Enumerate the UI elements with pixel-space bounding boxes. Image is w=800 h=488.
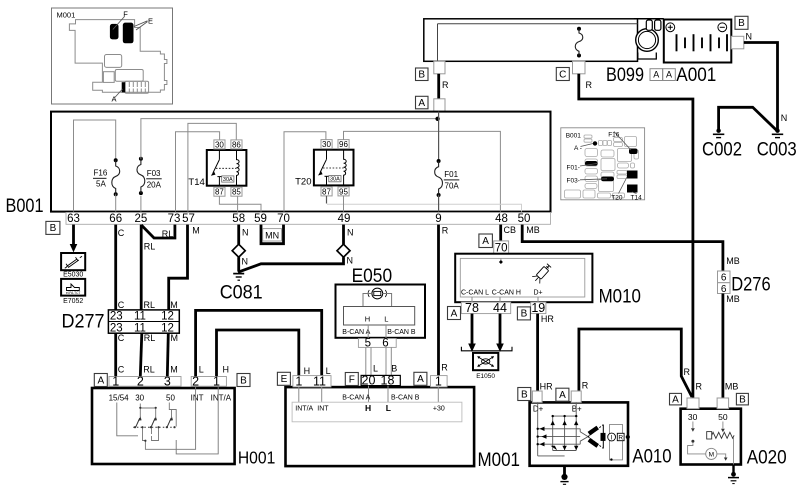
svg-text:6: 6: [721, 284, 727, 295]
svg-text:2: 2: [137, 374, 144, 388]
A020 solenoid coil: [707, 432, 734, 439]
svg-text:5A: 5A: [96, 180, 106, 189]
svg-text:R: R: [696, 382, 703, 392]
svg-text:B: B: [521, 389, 528, 400]
svg-text:C: C: [118, 228, 125, 238]
svg-text:R: R: [684, 367, 691, 377]
svg-text:63: 63: [67, 213, 80, 225]
wire branch C003 to C002: [719, 107, 777, 130]
connector label A (B001 top): [416, 96, 429, 109]
wire T14 pin85 to pin58: [237, 196, 239, 211]
svg-text:C: C: [118, 300, 125, 310]
svg-text:86: 86: [232, 140, 241, 149]
svg-text:RL: RL: [144, 333, 156, 343]
svg-text:MB: MB: [726, 294, 740, 304]
svg-text:C002: C002: [702, 140, 742, 161]
wire fuse F16 to pin66: [115, 194, 117, 211]
wire T14 pin87 to pin59: [219, 196, 261, 211]
ground C002: [702, 129, 742, 161]
svg-text:50: 50: [518, 213, 531, 225]
svg-text:6: 6: [721, 272, 727, 283]
svg-text:T20: T20: [611, 195, 623, 202]
B001 top pin A stub: [434, 99, 445, 112]
svg-text:MB: MB: [725, 382, 739, 392]
svg-text:D276: D276: [731, 274, 771, 296]
wire M pin57 to D277: [169, 225, 188, 310]
wire fuse F03 top to F01 node: [141, 119, 438, 159]
svg-text:C: C: [118, 333, 125, 343]
svg-text:A: A: [482, 236, 489, 247]
svg-text:85: 85: [232, 188, 241, 197]
svg-text:T20: T20: [295, 177, 311, 188]
svg-text:L: L: [386, 403, 391, 413]
svg-text:F: F: [349, 374, 355, 385]
svg-text:1: 1: [112, 374, 119, 388]
svg-text:A: A: [418, 98, 425, 109]
svg-text:A001: A001: [676, 64, 716, 86]
wire pin25 through fuse F03 to junction: [140, 196, 142, 212]
H001 switch mechanism: [117, 386, 218, 454]
svg-text:E5030: E5030: [63, 272, 83, 279]
connector label B (M010): [517, 307, 530, 320]
svg-text:58: 58: [232, 213, 245, 225]
labels L H above H001-B: [199, 365, 229, 375]
svg-text:F03: F03: [147, 169, 161, 178]
wire pin70 to T20 pin30: [284, 132, 326, 212]
connector label A (M010): [448, 307, 461, 320]
svg-text:1: 1: [213, 374, 220, 388]
wire stub T20 pin87: [326, 196, 328, 204]
wire B099-B down to B001-A: [437, 74, 440, 99]
svg-text:INT: INT: [191, 394, 204, 403]
svg-text:C-CAN H: C-CAN H: [492, 290, 521, 297]
A010 D+ stub: [532, 391, 543, 414]
svg-text:25: 25: [135, 213, 148, 225]
svg-text:15/54: 15/54: [109, 394, 130, 403]
wire CB pin48 to M010 pin70: [499, 225, 502, 241]
horn E5030 symbol: [61, 253, 85, 279]
svg-text:A: A: [559, 390, 566, 401]
svg-text:INT: INT: [317, 406, 329, 413]
svg-text:96: 96: [339, 140, 348, 149]
svg-text:H: H: [304, 366, 311, 376]
svg-text:L: L: [373, 363, 378, 373]
A010 stator and regulator: [580, 425, 630, 461]
svg-text:H: H: [365, 314, 370, 323]
svg-text:R: R: [442, 80, 449, 90]
svg-text:3: 3: [164, 374, 171, 388]
wire H H001-B1 to M001-E1: [217, 330, 299, 377]
fuse F03 20A: [137, 157, 162, 195]
wire C pin66 to D277: [114, 225, 117, 310]
wire N pin58 to connector: [237, 225, 240, 245]
wire RL jumper pin25 to pin73: [141, 225, 175, 238]
connector label A + pin 70 (M010 top): [479, 234, 509, 254]
svg-text:70: 70: [495, 242, 508, 254]
svg-text:B-CAN A: B-CAN A: [342, 329, 370, 336]
svg-text:B099: B099: [606, 64, 644, 86]
wire T20 pin95 to pin49: [343, 196, 345, 212]
node junction on F01 feed: [435, 117, 439, 121]
svg-text:20: 20: [362, 374, 376, 388]
horn E7052 symbol: [61, 279, 85, 305]
svg-text:N: N: [242, 228, 249, 238]
svg-text:A -: A -: [574, 145, 582, 152]
starter motor A020 box: [681, 409, 787, 469]
A010 ground: [560, 466, 568, 485]
svg-text:30: 30: [135, 394, 144, 403]
svg-text:C: C: [559, 69, 566, 80]
connector code boxes A A (B099/A001): [650, 69, 675, 81]
svg-text:HR: HR: [541, 314, 554, 324]
connector label B (A020): [736, 393, 748, 405]
svg-text:B-CAN B: B-CAN B: [391, 395, 420, 402]
relay T20: [295, 140, 353, 197]
CAN node E1050 symbol: [473, 353, 498, 380]
A020 pin 50 stub: [717, 398, 729, 422]
svg-text:R: R: [586, 80, 593, 90]
M001 internal terminal strip: [292, 402, 462, 422]
svg-text:INT/A: INT/A: [211, 394, 232, 403]
svg-text:F03-: F03-: [567, 177, 580, 184]
inset ECU outline drawing: [69, 20, 166, 93]
junction unit B099: [424, 19, 644, 86]
A020 ground: [728, 465, 739, 484]
svg-text:A: A: [672, 394, 679, 405]
inline connector (diamond) wire N right: [337, 244, 350, 257]
connector label B (B001 bottom): [46, 221, 60, 234]
svg-text:B001: B001: [6, 195, 44, 217]
svg-text:H001: H001: [238, 447, 275, 467]
svg-text:MN: MN: [265, 230, 279, 240]
wire pin73 to T14 pin30: [176, 132, 220, 212]
H001 connector B row: [191, 374, 226, 388]
svg-text:RL: RL: [143, 365, 155, 375]
M010 spark plug D+ icon: [532, 262, 553, 284]
inset relay F (black): [110, 10, 128, 40]
svg-text:11: 11: [134, 311, 146, 323]
svg-text:R: R: [618, 434, 623, 441]
wire N pin49 to connector: [342, 225, 345, 245]
ground C081: [220, 274, 263, 304]
svg-text:87: 87: [322, 187, 331, 196]
B001 bottom pin row: [66, 213, 551, 226]
labels H L above M001-E: [304, 366, 331, 376]
H001 connector A row: [109, 374, 181, 388]
svg-text:B-CAN B: B-CAN B: [387, 329, 416, 336]
M001 internal labels B-CAN: [342, 395, 419, 402]
svg-text:B: B: [391, 363, 397, 373]
svg-text:B: B: [50, 223, 57, 234]
svg-text:A020: A020: [747, 447, 787, 468]
svg-text:N: N: [347, 228, 354, 238]
svg-text:B: B: [521, 309, 528, 320]
svg-text:B001: B001: [566, 132, 582, 139]
alternator A010 box: [530, 402, 672, 467]
svg-text:B: B: [739, 394, 746, 405]
svg-text:57: 57: [182, 213, 195, 225]
svg-text:12: 12: [161, 311, 174, 323]
wire diamond to ground C081: [237, 257, 240, 271]
A010 B+ stub: [571, 391, 582, 414]
body computer M010: [455, 254, 641, 308]
B099 key/terminal symbol (circle): [634, 19, 664, 59]
svg-text:50: 50: [718, 412, 728, 422]
svg-text:M: M: [171, 333, 179, 343]
twisted pair wire L pin5 to M001 pin20: [366, 347, 371, 375]
svg-text:11: 11: [313, 374, 326, 388]
svg-text:I: I: [611, 435, 613, 442]
A010 rectifier diodes: [538, 402, 581, 456]
wire MB D276 to A020 pin50: [722, 294, 725, 398]
ground C003: [757, 129, 797, 161]
svg-text:E: E: [281, 374, 288, 385]
inset relay E (black): [123, 16, 153, 43]
svg-text:B: B: [738, 18, 745, 29]
svg-text:A: A: [97, 375, 104, 386]
wire T20 pin96 to pin48: [344, 131, 501, 211]
wire B001-A feed to fuse F01: [438, 112, 440, 159]
svg-text:66: 66: [109, 213, 122, 225]
connector label C (B099): [556, 68, 569, 81]
svg-text:9: 9: [435, 213, 441, 225]
svg-text:E7052: E7052: [63, 298, 83, 305]
svg-text:70: 70: [277, 213, 290, 225]
M001 internal pin leads: [299, 386, 439, 403]
inline connector (diamond) wire N: [232, 244, 245, 257]
svg-text:M001: M001: [478, 450, 521, 471]
fusebox B001: [6, 112, 551, 217]
wire N battery to C003: [744, 43, 778, 130]
svg-text:D+: D+: [533, 405, 544, 414]
wire pin63 to fuse F16: [74, 120, 116, 212]
svg-text:M001: M001: [57, 11, 76, 20]
fuse F16 5A: [93, 158, 120, 196]
labels C RL M above D277: [118, 300, 178, 310]
svg-text:F01-: F01-: [567, 164, 580, 171]
svg-text:70A: 70A: [445, 181, 460, 190]
connector label A (A020): [670, 393, 682, 405]
connector label F (M001): [345, 373, 358, 386]
relay T14: [188, 140, 246, 197]
M001 connector E row: [293, 374, 331, 388]
svg-text:L: L: [199, 365, 204, 375]
svg-text:el.FA.TCT: el.FA.TCT: [66, 291, 80, 295]
wire M D277 to H001 pin3: [167, 333, 168, 376]
connector label A (H001): [94, 374, 107, 387]
svg-text:30: 30: [322, 140, 331, 149]
B099 pin C stub: [573, 61, 586, 74]
svg-text:N: N: [347, 256, 354, 266]
svg-text:MB: MB: [726, 256, 740, 266]
svg-text:F16: F16: [608, 131, 620, 138]
fuse F01 70A: [435, 159, 460, 197]
svg-text:HR: HR: [540, 381, 553, 391]
wire MB pin50 to D276: [522, 225, 723, 271]
svg-text:CB: CB: [504, 225, 517, 235]
svg-text:R: R: [582, 381, 589, 391]
wire pin57 to T14 pin86: [188, 123, 236, 211]
svg-text:18: 18: [381, 374, 395, 388]
M010 internal node mark: [499, 258, 503, 264]
svg-text:D277: D277: [62, 311, 105, 333]
M001 connector F row 20 18: [361, 374, 400, 388]
control unit E050: [336, 265, 426, 338]
svg-text:30: 30: [688, 412, 698, 422]
connector D276: [718, 256, 771, 304]
E050 pin row 5 6: [358, 338, 396, 350]
connector label A (A010): [556, 388, 569, 401]
labels C RL M below D277: [118, 333, 178, 343]
svg-text:RL: RL: [162, 229, 174, 239]
connector label B (A010): [518, 388, 531, 401]
svg-text:B: B: [418, 70, 425, 81]
svg-text:M010: M010: [599, 287, 641, 308]
svg-text:48: 48: [495, 213, 508, 225]
E050 inner module: [342, 307, 416, 336]
wire HR M010 pin19 to A010 D+: [536, 314, 539, 391]
svg-text:RL: RL: [144, 242, 156, 252]
body control module M001: [286, 387, 521, 471]
svg-text:R: R: [442, 226, 449, 236]
svg-text:R: R: [441, 362, 448, 372]
svg-text:M: M: [192, 226, 200, 236]
svg-text:49: 49: [338, 213, 351, 225]
svg-text:M: M: [170, 300, 178, 310]
svg-text:M: M: [709, 452, 714, 459]
A020 pin 30 stub: [687, 398, 699, 422]
svg-text:C081: C081: [220, 283, 263, 304]
battery N pin stub: [731, 32, 752, 49]
A020 solenoid and motor: [688, 422, 734, 465]
svg-text:6: 6: [382, 338, 388, 350]
M010 pin row 78 44: [461, 301, 510, 315]
svg-text:F16: F16: [94, 169, 108, 178]
connector label A (M001): [414, 372, 427, 385]
svg-text:L: L: [326, 366, 331, 376]
svg-text:30A: 30A: [223, 177, 233, 183]
inset location diagram frame M001: [52, 8, 173, 104]
H001 switch contacts: [133, 407, 176, 442]
svg-text:23: 23: [110, 311, 123, 323]
svg-text:30: 30: [215, 140, 224, 149]
svg-text:B-CAN A: B-CAN A: [342, 395, 370, 402]
svg-text:N: N: [746, 32, 753, 42]
arrow wire M010 pin78 to E1050: [468, 314, 476, 352]
connector D277: [62, 310, 180, 334]
svg-text:N: N: [781, 113, 788, 123]
connector label B (H001): [237, 374, 250, 387]
M010 pin 19: [531, 301, 546, 315]
labels C RL M above H001: [118, 365, 178, 375]
fusible link inside B099: [575, 27, 583, 58]
wire RL D277 to H001 pin2: [140, 333, 142, 376]
svg-text:C003: C003: [757, 140, 797, 161]
svg-text:B: B: [240, 375, 247, 386]
svg-text:E050: E050: [352, 265, 393, 287]
wire R pin9 to M001-A: [437, 225, 440, 376]
svg-text:N: N: [242, 256, 249, 266]
svg-text:44: 44: [493, 301, 507, 315]
svg-text:MB: MB: [526, 225, 540, 235]
svg-text:20A: 20A: [147, 180, 162, 189]
svg-text:H: H: [223, 365, 230, 375]
arrow wire pin63 to E5030/E7052: [70, 225, 78, 253]
svg-text:C-CAN L: C-CAN L: [461, 290, 489, 297]
B099 pin B stub: [434, 61, 445, 74]
svg-text:A010: A010: [632, 447, 671, 468]
svg-text:INT/A: INT/A: [295, 406, 313, 413]
wire MN jumper pin59 to pin70: [261, 225, 284, 244]
bracket under arrows: [461, 347, 512, 351]
svg-text:F: F: [123, 10, 128, 19]
svg-text:A: A: [653, 70, 659, 80]
H001 internal terminal labels: [109, 394, 232, 403]
M001 connector A row: [431, 374, 448, 388]
svg-text:1: 1: [295, 374, 302, 388]
inset connector grid A: [112, 81, 149, 103]
svg-text:C: C: [118, 365, 125, 375]
ignition switch H001: [92, 388, 275, 467]
connector label B (B099 left): [416, 68, 429, 81]
wire B099-C to A020 pin 30: [579, 74, 693, 398]
svg-text:A: A: [451, 308, 458, 319]
wire fuse F01 to pin9: [438, 195, 440, 212]
svg-text:M: M: [170, 365, 178, 375]
svg-text:E1050: E1050: [476, 373, 495, 380]
svg-text:T14: T14: [188, 177, 204, 188]
svg-text:F01: F01: [444, 170, 458, 179]
wires E050 module to pins 5 6: [368, 325, 386, 339]
twisted pair wire B pin6 to M001 pin18: [386, 347, 391, 375]
svg-text:73: 73: [168, 213, 181, 225]
svg-text:2: 2: [192, 374, 199, 388]
svg-text:D+: D+: [534, 290, 543, 297]
svg-text:A: A: [112, 95, 117, 104]
connector label E (M001): [277, 372, 290, 385]
wire C D277 to H001 pin1: [114, 333, 117, 376]
wires M010 labels to pins: [472, 297, 538, 302]
svg-text:E: E: [148, 16, 153, 25]
svg-text:50: 50: [166, 394, 175, 403]
svg-text:RL: RL: [144, 300, 156, 310]
inset fusebox location diagram B001: [561, 128, 645, 202]
svg-text:H: H: [365, 403, 371, 413]
wire R A010 B+ to A020 junction: [579, 329, 692, 397]
arrow wire M010 pin44 to E1050: [496, 314, 504, 352]
wire RL pin25 to D277: [140, 225, 143, 310]
faint wire T20 pin87 to pin50: [327, 204, 522, 211]
svg-text:B+: B+: [572, 405, 582, 414]
svg-text:87: 87: [215, 188, 224, 197]
wire right diamond to ground C081: [238, 257, 344, 272]
svg-text:L: L: [384, 314, 388, 323]
M010 internal labels: [461, 290, 543, 297]
svg-text:A: A: [417, 374, 424, 385]
svg-text:+30: +30: [433, 406, 445, 413]
svg-text:A: A: [666, 70, 672, 80]
svg-text:T14: T14: [631, 195, 643, 202]
svg-text:1: 1: [435, 374, 442, 388]
svg-text:78: 78: [465, 301, 479, 315]
svg-text:59: 59: [254, 213, 267, 225]
label MN: [263, 229, 282, 241]
A020 motor M: [706, 448, 717, 459]
wire L H001-B2 to M001-E11: [196, 310, 322, 376]
svg-text:30A: 30A: [330, 177, 340, 183]
svg-text:95: 95: [339, 187, 348, 196]
battery A001: [664, 20, 732, 87]
